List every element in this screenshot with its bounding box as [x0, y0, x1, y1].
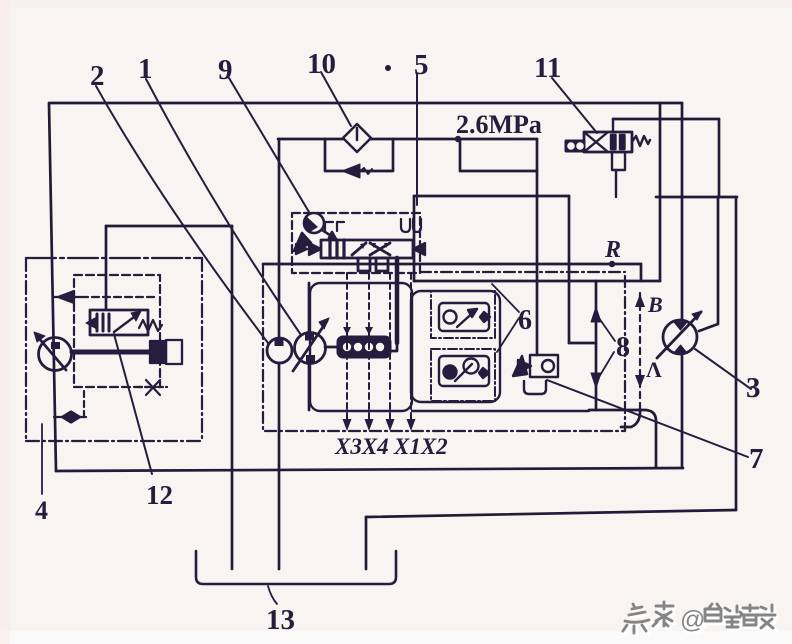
inner block A rounded — [310, 283, 412, 411]
inner block B rounded — [411, 291, 500, 402]
wire vertical x537 long — [536, 139, 539, 355]
wire motor riser lower — [681, 354, 684, 468]
dashed B-A line — [639, 293, 641, 409]
leader line 3 — [695, 349, 751, 389]
svg-text:2: 2 — [90, 60, 105, 92]
wire valve5 top port — [413, 196, 416, 281]
svg-text:10: 10 — [307, 48, 336, 80]
wire vertical x736 — [735, 197, 738, 510]
leader line 6 upper — [492, 284, 519, 312]
flow arrow down x596 — [591, 373, 601, 388]
svg-text:12: 12 — [146, 480, 173, 510]
leader line 10 — [321, 72, 351, 126]
leader line 6 lower — [497, 318, 519, 352]
relief valve 12 — [86, 310, 162, 335]
pilot port arrows X3 X4 X1 X2 — [343, 419, 416, 431]
wire vertical x660 — [659, 103, 662, 281]
svg-text:B: B — [647, 292, 663, 317]
wire vertical x719 — [718, 119, 721, 197]
pilot arrows into regulator — [343, 327, 351, 335]
wire vertical x278 pilot supply — [278, 139, 281, 336]
dashed valve5 pilot box — [292, 213, 420, 273]
wire jog y343 — [569, 342, 596, 345]
svg-text:X1X2: X1X2 — [393, 434, 448, 459]
pump 1 main pump — [293, 318, 329, 371]
wire R rail y264 — [263, 263, 641, 266]
port arrow B — [635, 294, 645, 307]
dashed module4 inner box — [74, 275, 160, 387]
wire bottom line B — [366, 510, 736, 517]
svg-text:1: 1 — [138, 53, 153, 85]
svg-text:13: 13 — [266, 604, 295, 636]
wire R rail elbow — [640, 264, 643, 281]
leader line 9 — [229, 78, 309, 212]
svg-text:11: 11 — [534, 52, 561, 84]
valve 6 upper symbol — [439, 303, 490, 331]
tank 13 — [196, 551, 396, 584]
svg-text:7: 7 — [749, 443, 764, 475]
label period — [385, 65, 391, 71]
valve 6 lower dashdot box — [431, 349, 495, 401]
svg-text:9: 9 — [218, 54, 233, 86]
wire pump2 suction — [278, 363, 281, 569]
svg-text:4: 4 — [35, 496, 48, 525]
wire y119 rail — [613, 118, 719, 121]
wire pump1 suction — [308, 364, 311, 410]
svg-text:R: R — [604, 237, 621, 263]
junction dot 2.6MPa — [455, 136, 461, 142]
pilot valve 9 symbol — [294, 213, 336, 251]
wire vertical x569 — [568, 196, 571, 343]
leader line 11 — [552, 78, 597, 133]
wire rail y281 — [414, 280, 660, 283]
svg-text:3: 3 — [746, 372, 761, 404]
port arrow A — [635, 375, 645, 388]
pilot lines X dashed verticals — [347, 273, 411, 419]
valve 5 spool — [296, 240, 425, 271]
svg-text:@: @ — [680, 606, 705, 634]
junction dot R — [609, 261, 615, 267]
wire vertical x682 upper — [681, 103, 684, 320]
wire tank dip x366 — [365, 517, 368, 569]
valve 7 symbol — [513, 355, 558, 394]
leader line 8 lower — [599, 352, 614, 377]
svg-text:5: 5 — [414, 49, 429, 81]
valve 6 upper dashdot box — [431, 291, 495, 338]
wire outer top line — [49, 102, 682, 105]
wire box top y226 — [106, 225, 232, 228]
svg-text:2.6MPa: 2.6MPa — [456, 110, 542, 139]
wire B line elbow — [621, 409, 640, 427]
wire y196 rail — [414, 195, 569, 198]
bottom pilot arrow module4 — [54, 387, 86, 423]
svg-text:8: 8 — [616, 332, 630, 363]
wire vertical x106 — [105, 226, 108, 308]
wire spool drop thick — [395, 258, 400, 343]
pump 4 — [34, 332, 72, 371]
wire regulator link left — [325, 346, 338, 349]
leader line 8 upper — [599, 318, 615, 341]
gauge 10 diamond — [343, 124, 371, 152]
wire vertical x596 — [595, 281, 598, 410]
drain arrow module4 — [53, 291, 158, 303]
svg-text:Λ: Λ — [646, 357, 662, 382]
leader line 7 — [547, 380, 748, 457]
motor 3 — [657, 311, 702, 358]
valve 6 lower symbol — [439, 356, 489, 386]
wire pump1 discharge — [308, 283, 311, 333]
wire y197 right rail — [656, 196, 737, 199]
wire outer left vertical — [49, 104, 56, 471]
check valve arrow in loop — [342, 164, 372, 178]
svg-text:6: 6 — [518, 305, 532, 336]
leader line 1 — [146, 79, 301, 335]
watermark — [623, 602, 777, 636]
wire vertical x717 to motor — [699, 197, 718, 331]
wire tank dip x232 — [231, 226, 234, 569]
wire bottom return line A — [56, 468, 683, 471]
leader line 12 — [114, 334, 152, 474]
leader line 4 — [41, 424, 43, 494]
dash-dot big enclosure — [263, 265, 625, 431]
servo piston assembly — [72, 340, 182, 364]
leader line 5 — [416, 74, 418, 205]
pump regulator block — [337, 336, 391, 358]
solenoid valve 11 — [566, 119, 650, 197]
wire y410 with elbow to line A — [589, 410, 656, 468]
wire 2.6MPa loop — [460, 139, 537, 171]
valve 5 springs right — [325, 219, 421, 232]
dash-dot module4 enclosure — [26, 258, 202, 441]
blocked port X module4 — [138, 380, 167, 395]
svg-text:X3X4: X3X4 — [334, 434, 389, 459]
leader line 13 — [268, 586, 277, 604]
pump 2 pilot pump — [267, 338, 292, 363]
wire block bottom extension — [412, 410, 589, 412]
flow arrow up x596 — [591, 307, 601, 322]
wire pressure rail y139 — [278, 138, 537, 141]
leader line 2 — [96, 86, 268, 343]
wire check valve loop — [325, 139, 393, 171]
wire regulator link right — [391, 343, 397, 351]
